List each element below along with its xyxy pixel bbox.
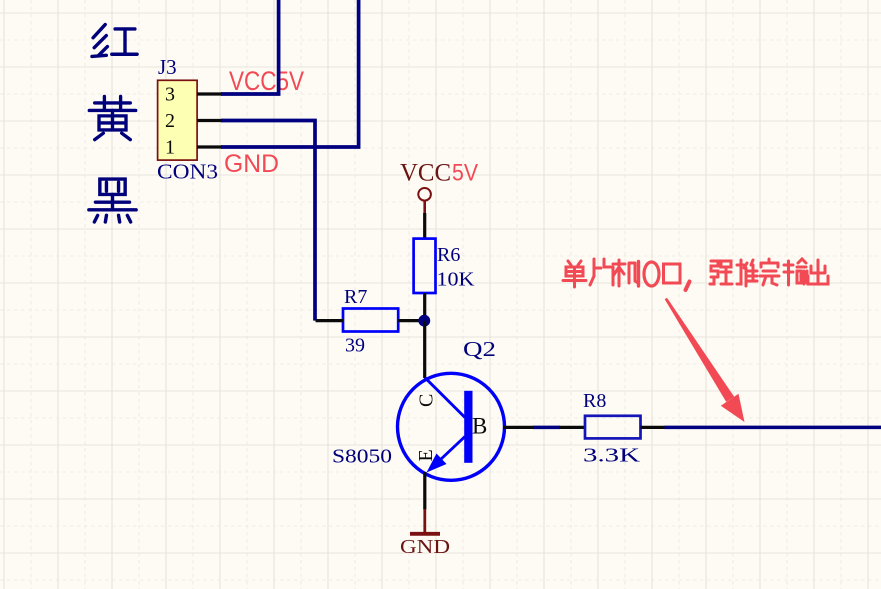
svg-text:R8: R8: [583, 390, 606, 412]
char 强: [710, 261, 732, 284]
wire pin3 to top: [221, 0, 279, 94]
svg-text:1: 1: [165, 137, 175, 159]
junction node: [418, 315, 430, 327]
char ，: [686, 282, 690, 291]
svg-text:S8050: S8050: [332, 446, 392, 468]
text 红: [92, 25, 137, 57]
svg-text:R7: R7: [344, 286, 367, 308]
svg-text:Q2: Q2: [463, 337, 496, 361]
char 片: [590, 259, 613, 285]
char 输: [784, 259, 807, 285]
char 机: [613, 260, 638, 286]
ground GND symbol: [410, 509, 440, 534]
wire pin2 to R7: [221, 121, 315, 321]
char 单: [563, 261, 586, 287]
wire base to R8: [533, 426, 560, 430]
R7 left pin: [316, 319, 344, 322]
pin 1 stub: [197, 145, 223, 148]
svg-text:R6: R6: [437, 244, 460, 266]
svg-text:CON3: CON3: [157, 160, 218, 184]
R8 right pin: [641, 426, 666, 429]
text 黑: [89, 179, 136, 222]
pin 3 stub: [197, 92, 223, 95]
resistor R7: [343, 309, 398, 332]
svg-text:VCC5V: VCC5V: [229, 66, 304, 96]
char 口: [664, 264, 681, 283]
Q2 base pin: [503, 426, 534, 429]
R7 right pin: [398, 319, 424, 322]
svg-text:2: 2: [165, 110, 175, 132]
Q2 emitter pin: [423, 472, 426, 510]
svg-text:GND: GND: [224, 150, 279, 178]
char 推: [737, 260, 757, 286]
wire junction to Q2 collector: [423, 321, 426, 378]
svg-text:J3: J3: [158, 55, 177, 79]
char I: [637, 262, 640, 287]
resistor R6: [414, 239, 436, 293]
text 黄: [89, 96, 135, 139]
char 完: [760, 259, 779, 285]
connector J3 body: [158, 80, 198, 160]
annotation text 单片机IO口，强推完输出: [563, 259, 828, 290]
R6 top pin: [423, 213, 426, 239]
power port VCC circle: [418, 188, 431, 214]
svg-text:C: C: [416, 394, 438, 407]
svg-text:GND: GND: [400, 536, 450, 558]
wire R8 to right edge: [665, 426, 881, 430]
pin 2 stub: [197, 119, 223, 122]
char O: [644, 262, 659, 286]
svg-text:3: 3: [165, 84, 175, 106]
svg-text:3.3K: 3.3K: [583, 445, 641, 467]
transistor Q2: [398, 373, 505, 480]
char 出: [808, 260, 828, 284]
svg-text:10K: 10K: [437, 269, 476, 291]
svg-text:VCC: VCC: [400, 160, 451, 187]
wire pin1 to top: [221, 0, 359, 147]
svg-text:5V: 5V: [452, 160, 478, 187]
R8 left pin: [560, 426, 586, 429]
resistor R8: [585, 416, 641, 439]
annotation arrow: [665, 298, 745, 422]
svg-text:E: E: [415, 449, 437, 461]
svg-text:B: B: [472, 414, 487, 439]
svg-text:39: 39: [345, 335, 365, 357]
R6 bottom pin: [423, 293, 426, 321]
